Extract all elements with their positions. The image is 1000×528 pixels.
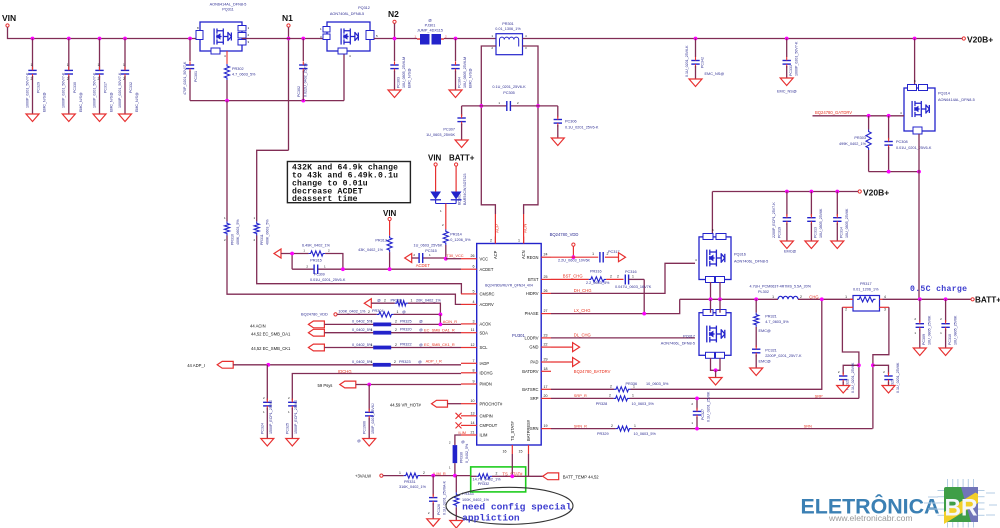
junction PC308 bottom — [887, 170, 891, 174]
svg-text:59 Psys: 59 Psys — [318, 383, 333, 388]
svg-text:BST_CHG: BST_CHG — [563, 274, 583, 279]
junction PR330 bottom — [453, 474, 457, 478]
svg-text:10_0603_5%: 10_0603_5% — [646, 382, 669, 386]
capacitor PC326 0.1U_0201_25V6-K — [428, 476, 447, 519]
svg-text:SRP_R: SRP_R — [574, 393, 587, 398]
svg-text:EMC_NS@: EMC_NS@ — [777, 90, 797, 94]
svg-text:400K_0603_5%: 400K_0603_5% — [236, 219, 240, 245]
net label BST_CHG — [563, 274, 583, 279]
svg-text:0.022U_0402_25V7K: 0.022U_0402_25V7K — [304, 62, 308, 97]
svg-text:PQ314: PQ314 — [938, 92, 950, 96]
svg-text:470P_0201_50V/7-K: 470P_0201_50V/7-K — [183, 61, 187, 95]
svg-text:EMC_N/S@: EMC_N/S@ — [408, 68, 412, 88]
svg-text:0.1U_0201_25V6A-K: 0.1U_0201_25V6A-K — [443, 480, 447, 515]
svg-text:@: @ — [461, 440, 465, 444]
transistor PQ311 AON6414AL_DFN8-5 (input P-FET) — [196, 3, 250, 59]
svg-text:BATSRC: BATSRC — [522, 387, 538, 392]
wire PR315 to ACDET row — [325, 254, 343, 270]
wire to PC323 — [873, 365, 889, 374]
power arrow at PAD pin — [551, 358, 580, 367]
svg-text:0.1U_0201_25V6K: 0.1U_0201_25V6K — [851, 362, 855, 393]
svg-text:AON7406L_DFN8-5: AON7406L_DFN8-5 — [661, 342, 695, 346]
svg-text:PC305: PC305 — [503, 91, 515, 95]
svg-text:0_0402_5%: 0_0402_5% — [465, 443, 469, 463]
op-amp U1: charger IC PU301 BQ24780S/RUYR_QFN24_4X4 — [461, 237, 551, 455]
ground below PC309 — [913, 348, 926, 356]
svg-text:ADP_I_R: ADP_I_R — [426, 358, 442, 363]
svg-text:need config special: need config special — [462, 501, 572, 512]
svg-text:24: 24 — [544, 253, 548, 257]
svg-text:1: 1 — [518, 239, 520, 243]
capacitor PC303 10U_0805_25V6-M — [390, 57, 411, 90]
svg-text:PC306: PC306 — [565, 120, 577, 124]
resistor PR311 400K_0603_5% — [254, 216, 270, 245]
junction phase a — [709, 297, 713, 301]
svg-text:PC330: PC330 — [73, 82, 77, 93]
svg-text:25: 25 — [544, 275, 548, 279]
svg-text:22: 22 — [544, 343, 548, 347]
svg-text:1: 1 — [632, 275, 634, 279]
svg-text:PC1906: PC1906 — [363, 421, 367, 434]
svg-text:PR301: PR301 — [502, 22, 514, 26]
wire Psys to PMON — [356, 384, 461, 386]
junction PC304 tap — [454, 37, 458, 41]
wire VIN rail to PQ311 — [8, 27, 197, 39]
annotation text: 0.5C charge — [910, 284, 967, 294]
svg-text:EC_SMB_CK1_R: EC_SMB_CK1_R — [424, 342, 455, 347]
svg-text:AON6414AL_DFN8-5: AON6414AL_DFN8-5 — [210, 3, 247, 7]
svg-text:2: 2 — [98, 77, 100, 81]
svg-text:26: 26 — [471, 254, 475, 258]
junction PR303 top — [867, 114, 871, 118]
svg-text:11: 11 — [471, 328, 475, 332]
capacitor PC1906 150P_0201_25V6J — [357, 385, 375, 444]
svg-text:1: 1 — [399, 471, 401, 475]
svg-text:BQ24780_VDD: BQ24780_VDD — [550, 232, 579, 237]
svg-text:400K_0603_5%: 400K_0603_5% — [266, 219, 270, 245]
ground below PC307 — [455, 140, 468, 148]
capacitor PC330 1000P_0201_50V/7-K — [62, 39, 83, 115]
svg-text:PC308: PC308 — [896, 140, 908, 144]
svg-text:PQ312: PQ312 — [358, 6, 370, 10]
wire PQ317 drain b — [719, 299, 721, 312]
svg-text:PR316: PR316 — [590, 269, 602, 273]
svg-text:1: 1 — [123, 63, 125, 67]
svg-text:PC321: PC321 — [765, 348, 777, 352]
svg-text:0.01U_0201_25V6-K: 0.01U_0201_25V6-K — [310, 278, 346, 282]
svg-text:N1: N1 — [282, 13, 293, 23]
svg-text:VIN: VIN — [2, 13, 16, 23]
svg-text:ACN: ACN — [523, 224, 528, 233]
svg-text:PQ316: PQ316 — [734, 253, 746, 257]
svg-text:ILIM: ILIM — [480, 433, 489, 438]
svg-text:PC315: PC315 — [425, 249, 437, 253]
ground below PC304 — [449, 90, 462, 98]
power arrow at REGN — [619, 253, 626, 262]
svg-text:10U_0805_25V6K: 10U_0805_25V6K — [928, 315, 932, 345]
wire V20B+ rail — [523, 38, 964, 40]
annotation text: need config special appliction — [462, 501, 572, 523]
wire to VCC pin — [446, 258, 461, 260]
svg-text:PR315: PR315 — [310, 259, 322, 263]
svg-text:PR304: PR304 — [372, 309, 384, 313]
svg-text:3: 3 — [473, 319, 475, 323]
junction PC327 on SRN — [695, 427, 699, 431]
net label SRP — [815, 393, 823, 398]
svg-text:ILIM_R: ILIM_R — [433, 471, 446, 476]
svg-text:V20B+: V20B+ — [967, 35, 993, 45]
svg-text:1000P_0201_50V/7-K: 1000P_0201_50V/7-K — [62, 72, 66, 108]
resistor PR315 6.49K_0402_1% — [302, 243, 331, 262]
connector 44,52 EC_SMB_CK1 — [251, 344, 324, 351]
svg-text:0.01U_0201_25V6-K: 0.01U_0201_25V6-K — [896, 146, 932, 150]
junction ACN/PC305/PC306 — [536, 104, 540, 108]
junction PC326 tap — [431, 474, 435, 478]
junction PC313 on V20B+ rail — [810, 190, 814, 194]
wire BATT+ rail — [883, 298, 973, 300]
junction N2 on rail — [393, 37, 397, 41]
svg-text:1: 1 — [632, 394, 634, 398]
svg-text:20: 20 — [544, 394, 548, 398]
svg-text:ACDET: ACDET — [416, 263, 431, 268]
svg-text:316K_0402_1%: 316K_0402_1% — [399, 485, 427, 489]
junction PC324 tap — [266, 363, 270, 367]
junction VIN rail x=125 — [123, 37, 127, 41]
svg-text:BATT+: BATT+ — [449, 154, 475, 163]
wire PQ317 sources join — [711, 358, 721, 370]
wire N2 vertical — [394, 24, 396, 62]
resistor PR302 4.7_0603_5% — [224, 51, 256, 101]
capacitor PC304 10U_0805_25V6-M — [451, 39, 472, 91]
connector 44,59 VR_HOT# — [390, 400, 448, 407]
diode BD302 BAR54CW,SOT323 (dual) — [430, 166, 467, 213]
resistor PR330 0_0402_5% (jumper) — [449, 440, 469, 470]
svg-text:1000P_0201_50V/7-K: 1000P_0201_50V/7-K — [92, 72, 96, 108]
svg-text:BQ24780S/RUYR_QFN24_4X4: BQ24780S/RUYR_QFN24_4X4 — [485, 284, 533, 288]
svg-text:PL302: PL302 — [758, 290, 769, 294]
svg-text:44,59 VR_HOT#: 44,59 VR_HOT# — [390, 402, 422, 407]
wire N1 vertical — [288, 27, 290, 150]
node N1 — [282, 13, 293, 27]
svg-text:44,52 EC_SMB_DA1: 44,52 EC_SMB_DA1 — [251, 331, 291, 336]
wire PR315 left leg — [291, 254, 293, 270]
svg-text:@: @ — [418, 360, 422, 364]
junction boost cap on PHASE — [642, 312, 646, 316]
svg-text:4: 4 — [473, 300, 475, 304]
junction pin16 on row — [510, 474, 514, 478]
junction PC309 on BATT+ — [918, 297, 922, 301]
net label BQ24780_GATDRV — [815, 110, 852, 115]
svg-text:ACP: ACP — [493, 250, 498, 259]
svg-text:T30_VCC: T30_VCC — [447, 253, 464, 258]
svg-text:2: 2 — [395, 320, 397, 324]
wire PQ317 drain a — [710, 299, 712, 312]
svg-text:27: 27 — [544, 309, 548, 313]
net label ACN — [523, 224, 528, 233]
svg-text:7: 7 — [473, 359, 475, 363]
svg-text:10U_0805_25V6K: 10U_0805_25V6K — [819, 208, 823, 238]
wire LODRV to PQ317 gate — [551, 337, 695, 339]
capacitor PC308 0.01U_0201_25V6-K — [884, 116, 932, 172]
node +3VALW — [355, 474, 383, 479]
svg-text:EC_SMB_DA1_R: EC_SMB_DA1_R — [424, 327, 455, 332]
wire arrow to PR315 — [281, 253, 309, 255]
svg-text:PHASE: PHASE — [525, 311, 539, 316]
svg-text:DH_CHG: DH_CHG — [574, 288, 592, 293]
junction PR304/PR309 — [439, 313, 443, 317]
wire PQ314 source to BATT+ rail — [918, 134, 920, 299]
resistor PR301 0.01_1306_1% current-sense shunt — [491, 22, 527, 55]
svg-text:SRP: SRP — [530, 396, 539, 401]
svg-text:44,52 EC_SMB_CK1: 44,52 EC_SMB_CK1 — [251, 346, 291, 351]
junction phase b — [718, 297, 722, 301]
ground below PC319 — [780, 241, 793, 249]
connector 44,52 EC_SMB_DA1 — [251, 329, 324, 336]
connector 44 ADP_I — [187, 361, 233, 368]
svg-text:1: 1 — [98, 63, 100, 67]
wire ILIM to PR330 — [455, 435, 461, 445]
junction VIN rail x=99.5 — [98, 37, 102, 41]
svg-text:PC303: PC303 — [397, 77, 401, 88]
jumper PJ301 JUMP_4DX115 — [414, 19, 447, 45]
ground below PC321 — [750, 368, 763, 376]
svg-text:0.01_1206_1%: 0.01_1206_1% — [853, 288, 879, 292]
wire HIDRV to PQ316 gate — [551, 263, 695, 293]
capacitor PC302 0.022U_0402_25V7K — [301, 37, 305, 41]
svg-text:AON6414AL_DFN8-5: AON6414AL_DFN8-5 — [938, 98, 975, 102]
ground below PC322 — [837, 386, 850, 394]
svg-text:1: 1 — [371, 320, 373, 324]
svg-text:BATPRES#: BATPRES# — [526, 419, 531, 441]
svg-text:IADP: IADP — [480, 361, 490, 366]
transistor PQ316 AON7406L_DFN8-5 (high-side) — [695, 228, 768, 283]
svg-text:PR314: PR314 — [450, 233, 462, 237]
svg-text:10: 10 — [471, 399, 475, 403]
green highlight box around PR332 — [471, 467, 526, 492]
svg-text:10_0603_5%: 10_0603_5% — [632, 402, 655, 406]
svg-text:6.49K_0402_1%: 6.49K_0402_1% — [302, 243, 331, 247]
svg-text:ACDRV: ACDRV — [480, 302, 495, 307]
svg-text:ACP: ACP — [494, 224, 499, 233]
ground below PC1906 — [363, 439, 376, 447]
junction PR313 bottom — [388, 267, 392, 271]
resistor PR323 0_0402_5% (jumper) — [233, 360, 461, 367]
svg-text:1: 1 — [397, 310, 399, 314]
ground below PR333 — [450, 521, 463, 528]
svg-text:PC302: PC302 — [297, 86, 301, 97]
svg-text:PC313: PC313 — [813, 227, 817, 238]
svg-text:PC342: PC342 — [701, 57, 705, 68]
wire PR330 to ILIM_R row — [454, 463, 456, 476]
capacitor PC319 2200P_ECP1_25V7-K — [772, 192, 791, 242]
svg-text:0.1U_0201_25V6-K: 0.1U_0201_25V6-K — [565, 126, 599, 130]
svg-text:2: 2 — [123, 77, 125, 81]
svg-text:PR303: PR303 — [854, 136, 866, 140]
net label DH_CHG — [574, 288, 592, 293]
svg-text:BQ24780_VDD: BQ24780_VDD — [301, 312, 328, 317]
svg-text:EMC@: EMC@ — [759, 329, 771, 333]
resistor PR314 0_1206_5% — [442, 204, 471, 259]
wire to PC322 — [843, 365, 859, 374]
svg-text:17: 17 — [544, 385, 548, 389]
wire PHASE to switch node — [551, 299, 680, 313]
resistor PR313 43K_0402_1% — [358, 221, 392, 270]
net label LX_CHG — [574, 308, 591, 313]
svg-text:PC301: PC301 — [194, 71, 198, 82]
svg-text:PR325: PR325 — [400, 319, 412, 323]
label EMC@ near PC319 ground — [784, 250, 796, 254]
node BQ24780_VDD — [550, 232, 579, 246]
svg-text:16: 16 — [503, 450, 507, 454]
svg-text:SRP: SRP — [815, 393, 823, 398]
svg-text:20K_0402_1%: 20K_0402_1% — [416, 299, 442, 303]
net label IDCHG — [338, 369, 352, 374]
svg-text:150P_0201_25V6J: 150P_0201_25V6J — [371, 403, 375, 434]
net label CHG — [809, 295, 818, 300]
net label ILIM — [458, 430, 466, 435]
svg-text:SCL: SCL — [480, 345, 489, 350]
svg-text:EMC_NS@: EMC_NS@ — [705, 72, 725, 76]
svg-text:AON7408L_DFN8-5: AON7408L_DFN8-5 — [330, 12, 364, 16]
wire PR303/PC308 bottoms — [869, 171, 919, 173]
EletronicaBR watermark logo — [801, 479, 998, 528]
junction PQ314 source — [917, 170, 921, 174]
svg-text:19: 19 — [544, 424, 548, 428]
svg-text:PC326: PC326 — [437, 504, 441, 515]
node VIN (top-left input) — [2, 13, 16, 27]
ground below PC306 — [551, 138, 564, 146]
svg-text:2: 2 — [395, 343, 397, 347]
svg-text:1: 1 — [845, 295, 847, 299]
svg-text:V20B+: V20B+ — [863, 188, 889, 198]
svg-text:@: @ — [419, 328, 423, 332]
svg-text:LODRV: LODRV — [524, 336, 538, 341]
ground below PC323 — [882, 386, 895, 394]
junction PC1906 tap — [367, 383, 371, 387]
wire IDCHG to PC325 — [292, 374, 461, 401]
connector arrow (ACDET divider) — [274, 249, 281, 258]
ground below PC332 — [119, 114, 132, 122]
svg-text:ACOK: ACOK — [480, 322, 492, 327]
svg-text:10_0603_5%: 10_0603_5% — [634, 432, 657, 436]
wire switch node (phase rail) — [680, 298, 853, 300]
wire to ACIN_R net — [439, 314, 441, 324]
svg-text:14: 14 — [471, 421, 475, 425]
svg-text:BR: BR — [945, 495, 978, 522]
svg-text:PC319: PC319 — [777, 227, 781, 238]
resistor PR316 2.2_0603_5% on BTST — [551, 269, 624, 284]
wire PQ316 source a — [710, 282, 712, 299]
svg-text:2: 2 — [368, 310, 370, 314]
junction PR314/VCC — [444, 257, 448, 261]
capacitor PC307 1U_0603_25V6K — [426, 106, 481, 140]
wire to PQ317 ground — [715, 370, 717, 377]
svg-text:PC325: PC325 — [286, 423, 290, 434]
svg-text:1000P_0201_50V/7-K: 1000P_0201_50V/7-K — [25, 72, 29, 108]
node V20B+ (second rail) — [858, 188, 889, 198]
svg-text:0.01_1306_1%: 0.01_1306_1% — [495, 27, 521, 31]
wire TS_STAT# pin16 drop — [511, 454, 513, 476]
svg-text:21: 21 — [471, 431, 475, 435]
node N2 — [388, 9, 399, 23]
capacitor PC342 0.1U_0201_25V6-K — [694, 37, 698, 41]
ground below PC310 — [939, 348, 952, 356]
svg-text:44 ACIN: 44 ACIN — [250, 323, 266, 328]
ground below PC324 — [261, 439, 274, 447]
capacitor PC310 10U_0805_25V6K — [940, 299, 957, 348]
svg-text:2: 2 — [395, 328, 397, 332]
junction PR321 tap — [754, 297, 758, 301]
resistor PR321 4.7_0603_5% (snubber) — [754, 299, 790, 347]
svg-text:PR329: PR329 — [597, 432, 609, 436]
svg-text:EMC@: EMC@ — [784, 250, 796, 254]
svg-text:PR332: PR332 — [478, 482, 490, 486]
svg-text:PC310: PC310 — [948, 334, 952, 345]
capacitor PC317 2.2U_0603_10V6K on REGN — [551, 250, 620, 263]
svg-text:26: 26 — [544, 289, 548, 293]
capacitor PC313 10U_0805_25V6K — [807, 192, 823, 242]
net label SRN_R — [574, 423, 587, 428]
svg-text:1000P_0201_50V/7-K: 1000P_0201_50V/7-K — [118, 72, 122, 108]
svg-text:ACN: ACN — [521, 250, 526, 259]
ground below PC326 — [427, 519, 440, 527]
svg-text:appliction: appliction — [462, 512, 520, 523]
svg-text:SDA: SDA — [480, 330, 489, 335]
ground below PC331 — [780, 78, 793, 86]
svg-text:JUMP_4DX115: JUMP_4DX115 — [417, 29, 443, 33]
svg-text:29: 29 — [544, 358, 548, 362]
svg-text:PC304: PC304 — [458, 77, 462, 88]
resistor PR336 10_0603_5% on BATSRC — [551, 299, 822, 392]
svg-text:1: 1 — [67, 63, 69, 67]
no-connect X at CMPIN — [456, 413, 462, 419]
wire PR311 to CMSRC — [257, 236, 462, 294]
capacitor PC309 10U_0805_25V6K — [914, 299, 931, 348]
resistor PR322 0_0402_5% (jumper) — [324, 343, 461, 350]
svg-text:2: 2 — [800, 295, 802, 299]
svg-text:2: 2 — [384, 299, 386, 303]
svg-text:BATT_TEMP 44,52: BATT_TEMP 44,52 — [563, 475, 600, 480]
net label ACP — [494, 224, 499, 233]
resistor PR333 100K_0402_1% — [454, 476, 490, 521]
svg-text:44 ADP_I: 44 ADP_I — [187, 363, 205, 368]
wire V20B+ to PQ314 — [914, 39, 916, 86]
svg-text:PAD: PAD — [530, 360, 538, 365]
svg-text:2: 2 — [490, 239, 492, 243]
svg-text:PR313: PR313 — [375, 239, 387, 243]
svg-text:0.1U_0201_25V6K: 0.1U_0201_25V6K — [896, 362, 900, 393]
svg-text:12: 12 — [471, 343, 475, 347]
capacitor PC315 1U_0603_25V6K — [412, 244, 446, 264]
junction BATSRC tap — [820, 297, 824, 301]
junction ACIN_R — [439, 323, 443, 327]
svg-text:EMC_N/S@: EMC_N/S@ — [79, 92, 83, 112]
svg-text:CMPOUT: CMPOUT — [480, 423, 498, 428]
svg-text:HIDRV: HIDRV — [526, 291, 539, 296]
svg-text:BTST: BTST — [528, 277, 539, 282]
ground below PQ317 — [709, 378, 722, 386]
svg-text:PR336: PR336 — [626, 382, 638, 386]
svg-text:1: 1 — [31, 63, 33, 67]
svg-text:SRN_R: SRN_R — [574, 423, 587, 428]
svg-text:4.7_0603_5%: 4.7_0603_5% — [765, 320, 789, 324]
svg-text:BATT+: BATT+ — [975, 296, 1000, 305]
svg-text:PR302: PR302 — [232, 67, 244, 71]
svg-text:1: 1 — [633, 385, 635, 389]
annotation ellipse: need config special appliction — [446, 487, 573, 524]
svg-text:2: 2 — [67, 77, 69, 81]
svg-text:BAR54CW,SOT323: BAR54CW,SOT323 — [463, 173, 467, 205]
